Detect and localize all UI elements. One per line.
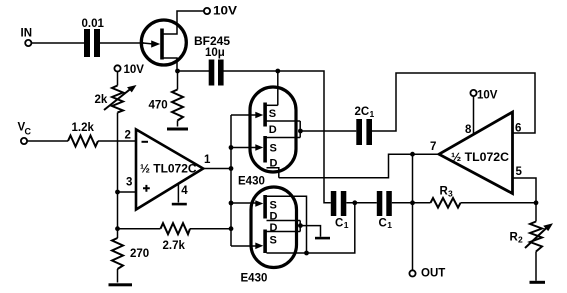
svg-text:E430: E430 bbox=[238, 176, 265, 188]
svg-text:10V: 10V bbox=[124, 64, 145, 76]
svg-text:S: S bbox=[270, 235, 277, 247]
svg-text:S: S bbox=[269, 108, 276, 120]
svg-text:E430: E430 bbox=[241, 273, 268, 285]
svg-text:C: C bbox=[335, 218, 343, 230]
svg-text:C: C bbox=[25, 127, 32, 137]
svg-text:3: 3 bbox=[448, 189, 453, 199]
svg-text:1: 1 bbox=[387, 220, 392, 230]
svg-text:1.2k: 1.2k bbox=[72, 122, 95, 134]
svg-text:2: 2 bbox=[518, 235, 523, 245]
svg-text:8: 8 bbox=[465, 124, 472, 136]
svg-text:D: D bbox=[270, 222, 278, 234]
svg-text:470: 470 bbox=[149, 100, 168, 112]
svg-text:6: 6 bbox=[515, 123, 521, 135]
svg-text:7: 7 bbox=[430, 141, 436, 153]
svg-text:270: 270 bbox=[130, 248, 149, 260]
svg-text:D: D bbox=[269, 124, 277, 136]
svg-text:1: 1 bbox=[204, 154, 211, 166]
svg-text:½ TL072C: ½ TL072C bbox=[140, 164, 197, 176]
svg-text:5: 5 bbox=[516, 166, 523, 178]
svg-text:0.01: 0.01 bbox=[82, 18, 105, 30]
svg-text:S: S bbox=[270, 143, 277, 155]
svg-text:C: C bbox=[379, 218, 387, 230]
svg-text:2: 2 bbox=[125, 130, 131, 142]
svg-text:10μ: 10μ bbox=[205, 47, 225, 59]
svg-text:10V: 10V bbox=[477, 90, 498, 102]
svg-text:1: 1 bbox=[370, 109, 375, 119]
svg-text:OUT: OUT bbox=[421, 268, 445, 280]
svg-text:D: D bbox=[270, 158, 278, 170]
svg-text:D: D bbox=[270, 211, 278, 223]
svg-text:IN: IN bbox=[21, 28, 33, 40]
svg-text:1: 1 bbox=[344, 220, 349, 230]
svg-text:2.7k: 2.7k bbox=[163, 240, 186, 252]
svg-text:4: 4 bbox=[181, 185, 188, 197]
svg-text:½ TL072C: ½ TL072C bbox=[451, 152, 509, 164]
svg-text:2C: 2C bbox=[355, 106, 370, 118]
svg-text:2k: 2k bbox=[95, 94, 108, 106]
svg-text:3: 3 bbox=[126, 177, 132, 189]
svg-text:10V: 10V bbox=[213, 6, 237, 18]
